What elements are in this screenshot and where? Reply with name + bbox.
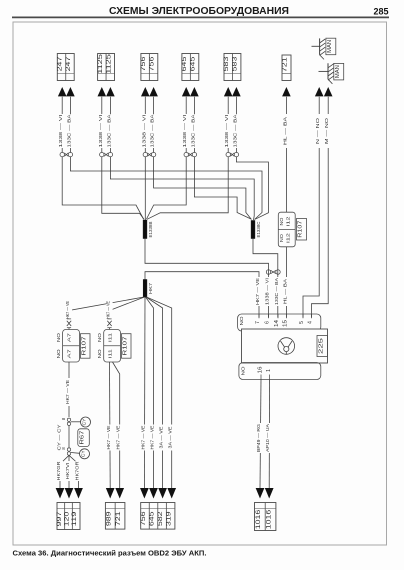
wire HL-BA upper [282,97,289,213]
arrows into connector 1016 [256,488,274,499]
svg-text:756: 756 [149,56,156,71]
wire BA pair1 to E1338C [70,157,262,220]
connector 583 (top row 5) [223,54,241,81]
splice mark above A7 [67,319,71,330]
splice E1338C [251,221,261,239]
svg-text:NO: NO [56,348,61,358]
label 1338-VI pin6 [265,277,272,306]
svg-text:133C — BA: 133C — BA [150,114,156,148]
svg-text:285: 285 [373,7,388,17]
svg-text:1338 — VI: 1338 — VI [141,115,147,148]
wire HK7 branch 4 [146,297,154,489]
svg-text:E1338B: E1338B [148,222,153,238]
header rule [12,16,389,18]
svg-text:СХЕМЫ ЭЛЕКТРООБОРУДОВАНИЯ: СХЕМЫ ЭЛЕКТРООБОРУДОВАНИЯ [109,5,289,17]
svg-text:1125: 1125 [97,53,104,73]
svg-text:756: 756 [141,510,147,526]
svg-text:HK7 — VE: HK7 — VE [106,301,111,319]
svg-text:645: 645 [190,56,197,71]
label CY-CY [57,423,64,452]
wire fan to 997 [56,455,69,488]
MAN symbol upper [312,38,336,59]
label wire 756 [140,425,147,451]
arrow to connector 721 [282,87,291,96]
svg-text:A7: A7 [67,333,73,342]
svg-text:BP49 — RG: BP49 — RG [256,424,261,452]
shield ring CY lower [80,449,90,459]
wire pair 1338-VI / 133C-BA #3 [141,97,156,157]
svg-text:225: 225 [318,338,324,354]
wire E1338B to pin 6 [145,239,269,318]
svg-text:HK7 — VE: HK7 — VE [140,426,145,450]
ECU box [242,329,328,363]
svg-text:6: 6 [265,321,271,324]
arrows to connector 247 [58,87,75,96]
MAN symbol lower [319,63,344,84]
svg-text:MAN: MAN [327,40,333,53]
svg-text:R107: R107 [123,336,129,355]
wire pair 1338-VI / 133C-BA #4 [182,97,197,157]
svg-text:4: 4 [308,321,314,324]
wire N-NO to pin 5 [303,97,322,318]
page header title [109,5,289,17]
wire VI pair1 to E1338B [62,157,143,219]
svg-text:AP10 — UA: AP10 — UA [265,423,270,452]
svg-text:CY: CY [81,450,86,457]
splice E1338B [143,220,153,239]
wire BA pair4 to E1338C [194,157,251,219]
arrows to connector 583 [224,87,241,96]
svg-text:A7: A7 [67,349,73,358]
svg-text:HK7 — VE: HK7 — VE [150,426,155,450]
wire pair 1338-VI / 133C-BA #2 [98,97,114,157]
svg-text:E1338C: E1338C [256,221,261,238]
wire VI pair5 to E1338B [147,157,228,220]
wire I11 to 989 [106,362,113,489]
wire pair 1338-VI / 133C-BA #1 [58,97,73,157]
svg-text:3A — VE: 3A — VE [168,427,173,449]
svg-text:7: 7 [255,321,261,324]
svg-text:I11: I11 [108,333,114,342]
svg-text:N — NO: N — NO [315,118,321,144]
svg-text:NO: NO [97,348,102,358]
wire VI pair3 to E1338B [144,157,146,220]
shield node upper [61,417,81,425]
connector I12 / R107 [278,212,306,247]
shield ring CY upper [81,417,91,427]
svg-text:319: 319 [167,510,173,526]
svg-text:133C — BA: 133C — BA [190,114,196,148]
connector 997/120/119 [57,503,80,530]
wire HL-BA to pin 15 [285,247,287,318]
svg-text:133C — BA: 133C — BA [274,277,280,305]
svg-text:583: 583 [232,56,239,71]
ECU pin ticks top [259,314,312,318]
wire below A7 [65,362,72,417]
svg-text:HK7VI: HK7VI [65,463,70,480]
svg-text:1016: 1016 [256,509,262,530]
svg-text:1338 — VI: 1338 — VI [58,115,64,148]
wire BA pair3 to E1338C [154,157,252,220]
label HK7-VE pin7 [255,277,262,306]
wire pair 1338-VI / 133C-BA #5 [224,97,239,157]
svg-text:1125: 1125 [105,53,112,73]
svg-text:989: 989 [106,510,112,526]
svg-text:133C — BA: 133C — BA [66,114,72,148]
connector 756/645/582/319 [141,503,175,530]
label wire 582 [159,425,166,451]
svg-text:119: 119 [72,511,78,527]
svg-text:997: 997 [57,511,63,527]
svg-text:HL — BA: HL — BA [282,116,288,145]
svg-text:R107: R107 [298,220,304,237]
svg-text:M — NO: M — NO [324,118,330,144]
ECU pin ticks bottom [261,375,270,380]
ECU label 225 [317,336,328,357]
svg-text:247: 247 [65,56,72,71]
svg-text:I11: I11 [108,349,114,358]
arrows to connector 1125 [98,87,115,96]
svg-text:NO: NO [279,233,284,242]
svg-text:Схема 36. Диагностический разъ: Схема 36. Диагностический разъем OBD2 ЭБ… [13,549,207,558]
wire HK7 to I11 branch [110,297,145,319]
ECU pin numbers bottom [257,366,272,373]
svg-text:133C — BA: 133C — BA [106,114,112,148]
ECU symbol [278,338,295,355]
connector I11 / R107 [97,330,131,363]
ECU top connector strip [238,314,321,331]
svg-text:NO: NO [279,217,284,226]
arrows to connector 756 [141,87,158,96]
label wire 645b [150,425,157,451]
label HL-BA pin15 [282,277,289,306]
svg-text:NO: NO [97,332,102,342]
svg-text:247: 247 [57,56,64,71]
connector A7 / R107 [56,330,90,363]
svg-text:HK7: HK7 [148,283,154,294]
wire HK7 branch 6 [146,297,171,489]
svg-text:1338 — VI: 1338 — VI [98,115,104,148]
wire fan to 119 [69,455,82,488]
svg-text:1016: 1016 [267,509,273,530]
svg-text:721: 721 [282,57,289,72]
svg-text:MAN: MAN [335,65,341,78]
wire HK7 to A7 branch [69,297,144,319]
svg-text:HK7 — VE: HK7 — VE [116,426,121,450]
svg-text:CY: CY [82,418,87,425]
svg-text:NO: NO [56,332,61,342]
svg-text:NO: NO [239,316,244,326]
svg-text:HL — BA: HL — BA [282,278,288,304]
svg-text:1338 — VI: 1338 — VI [224,115,230,148]
wire I11 to 721b [113,362,123,489]
svg-text:15: 15 [282,320,288,327]
svg-text:NO: NO [240,366,245,376]
svg-text:CY — CY: CY — CY [57,425,62,451]
page number 285 [373,7,388,17]
svg-text:133C — BA: 133C — BA [232,114,238,148]
label HK7-VE above A7 [65,300,72,320]
svg-text:1338 — VI: 1338 — VI [182,115,188,148]
wire between shield nodes [68,425,70,449]
svg-text:HK7 — VE: HK7 — VE [255,278,261,305]
wire VI pair2 to E1338B [102,157,144,220]
connector R67 [78,429,90,447]
arrows to connector 645 [182,87,199,96]
wire HK7 branch 5 [146,297,163,489]
svg-text:756: 756 [140,56,147,71]
label wire 319 [168,425,175,451]
caption [13,549,207,558]
connector 989/721 [105,503,125,530]
svg-text:HK7OR: HK7OR [75,461,80,481]
connector 721 [282,55,292,81]
ECU pin numbers top [255,320,314,327]
wire M-NO to pin 4 [312,97,332,318]
svg-text:645: 645 [150,510,156,526]
arrows below MAN [315,87,333,96]
wire HK7 to pin 7 [145,272,259,318]
connector 247 (top row 1) [57,54,75,81]
splice HK7 [143,280,154,298]
svg-text:HK7 — VE: HK7 — VE [106,426,111,450]
wire BA pair5 to E1338C [236,157,268,220]
svg-text:16: 16 [257,366,263,373]
connector 1125 (top row 2) [97,53,115,80]
svg-text:5: 5 [299,321,305,324]
svg-text:120: 120 [65,511,71,527]
connector 645 (top row 4) [181,54,199,81]
svg-text:HK7GR: HK7GR [56,461,61,481]
connector 1016 [255,503,276,531]
wire HK7 branch 3 [143,297,146,489]
svg-text:1338 — VI: 1338 — VI [265,278,271,305]
wire VI pair4 to E1338B [147,157,187,219]
svg-text:R107: R107 [82,336,88,355]
wire BA pair2 to E1338C [110,157,254,220]
bowtie pin6/pin14 pair [266,270,280,274]
svg-text:R67: R67 [80,430,86,444]
svg-text:3A — VE: 3A — VE [159,427,164,449]
svg-text:582: 582 [158,510,164,526]
svg-text:583: 583 [223,56,230,71]
svg-text:HK7 — VE: HK7 — VE [65,301,70,319]
ECU bottom connector strip [239,363,321,380]
svg-text:645: 645 [181,56,188,71]
svg-text:1: 1 [266,369,272,372]
wire fan to 120 [65,455,72,488]
svg-text:HK7 — VE: HK7 — VE [65,380,70,404]
arrows into connector 756/645/582/319 [140,488,176,499]
svg-text:14: 14 [274,320,280,327]
arrows into connector 997/120/119 [56,488,83,499]
wire E1338C to pin 14 [253,239,278,318]
shield node lower [61,447,80,456]
splice mark above I11 [107,319,111,330]
svg-text:721: 721 [116,510,122,526]
svg-text:I12: I12 [285,232,290,243]
label HK7-VE above I11 [106,300,113,320]
svg-text:I12: I12 [285,216,290,227]
arrows into connector 989/721 [106,488,124,499]
label 133C-BA pin14 [274,277,281,306]
wire AP10-UA [265,380,272,489]
wire BP49-RG [256,380,263,489]
connector 756 (top row 3) [140,54,158,81]
